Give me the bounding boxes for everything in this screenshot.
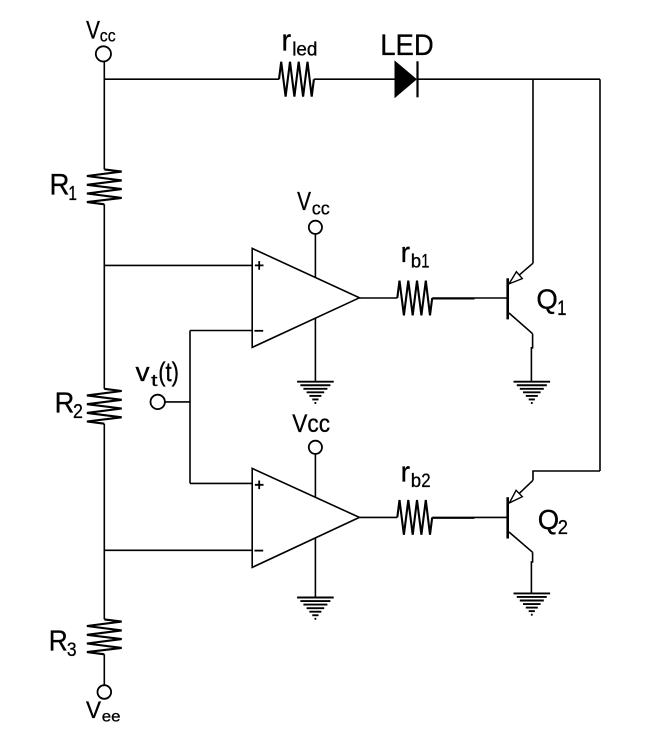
wire: Vcc to R1 xyxy=(103,62,105,170)
svg-text:r: r xyxy=(401,237,411,269)
wire (overlap stub at r_b1 output) xyxy=(432,298,474,300)
diode LED xyxy=(395,60,418,98)
R1 label xyxy=(50,169,78,205)
svg-text:b: b xyxy=(411,251,421,272)
LED label xyxy=(380,29,434,62)
svg-text:led: led xyxy=(292,39,317,60)
U2 Vcc terminal xyxy=(309,441,322,454)
Q2 label xyxy=(538,504,568,539)
U1 Vcc label xyxy=(297,188,330,219)
r_b2 label xyxy=(401,457,431,492)
resistor r_led xyxy=(279,62,314,97)
wire: right rail down to Q2 emitter level xyxy=(599,79,601,471)
svg-text:Vcc: Vcc xyxy=(292,410,330,438)
wire: top rail Vcc to r_led xyxy=(104,78,279,80)
wire: R2 to R3 (left rail) xyxy=(103,424,105,620)
svg-text:ee: ee xyxy=(102,709,121,726)
ground (Q2) xyxy=(514,593,551,614)
svg-text:1: 1 xyxy=(421,250,429,272)
svg-text:r: r xyxy=(282,23,292,57)
svg-text:cc: cc xyxy=(312,197,330,218)
svg-text:cc: cc xyxy=(100,25,116,45)
op-amp U2 xyxy=(252,468,359,567)
Q1 label xyxy=(536,283,566,320)
svg-text:v: v xyxy=(136,357,151,387)
ground (Q1) xyxy=(514,382,551,403)
wire: v_t vertical rail xyxy=(189,331,191,484)
svg-text:Q: Q xyxy=(538,504,559,535)
svg-text:3: 3 xyxy=(67,639,77,661)
wire: r_b2 to Q2 base xyxy=(432,516,506,518)
wire (overlap stub at r_b2 output) xyxy=(432,517,474,519)
transistor Q2 xyxy=(508,480,533,552)
Vee terminal xyxy=(98,685,112,699)
U2 Vcc label xyxy=(292,410,330,438)
svg-text:r: r xyxy=(401,457,411,489)
svg-text:(t): (t) xyxy=(158,357,179,387)
wire: U2 output to r_b2 xyxy=(359,516,397,518)
svg-text:b: b xyxy=(411,471,421,492)
ground (op-amp U2) xyxy=(297,598,334,619)
ground (op-amp U1) xyxy=(297,382,334,403)
op-amp U1 xyxy=(252,248,359,347)
wire: to U1 - input xyxy=(190,330,252,332)
resistor R1 xyxy=(87,169,122,204)
Vcc label xyxy=(86,16,116,45)
wire: Q2 collector to ground xyxy=(531,552,532,593)
wire: U2 Vcc to triangle xyxy=(314,454,316,497)
svg-text:2: 2 xyxy=(73,401,83,423)
wire: R1 to R2 (left rail) xyxy=(103,204,105,388)
R2 label xyxy=(55,387,83,423)
resistor r_b2 xyxy=(397,500,432,535)
svg-text:R: R xyxy=(49,626,68,658)
wire: r_b1 to Q1 base xyxy=(432,297,506,299)
Vee label xyxy=(86,697,121,726)
wire: U1 to ground xyxy=(314,318,316,382)
svg-text:LED: LED xyxy=(380,29,434,62)
transistor Q1 xyxy=(508,263,533,334)
svg-text:V: V xyxy=(86,16,100,44)
svg-text:R: R xyxy=(50,169,70,202)
wire: U1 output to r_b1 xyxy=(359,297,397,299)
R3 label xyxy=(49,626,77,661)
wire: Q2 emitter to right rail xyxy=(533,471,600,480)
wire: r_led to LED xyxy=(314,78,395,80)
wire: v_t(t) to junction rail xyxy=(165,401,190,403)
svg-text:1: 1 xyxy=(68,182,77,205)
svg-text:Q: Q xyxy=(536,283,557,314)
wire: LED to top-right corner xyxy=(418,78,601,80)
wire: R3 to Vee xyxy=(103,654,105,685)
U2 - input mark xyxy=(254,550,263,552)
svg-text:t: t xyxy=(151,371,158,390)
wire: Q1 collector to ground xyxy=(531,334,532,382)
resistor r_b1 xyxy=(397,281,432,316)
svg-text:R: R xyxy=(55,387,75,419)
r_b1 label xyxy=(401,237,430,272)
node B wire: left rail to op-amp U2 - input xyxy=(104,549,252,551)
U1 Vcc terminal xyxy=(309,221,322,234)
v_t(t) label xyxy=(136,357,180,390)
wire: to U2 + input xyxy=(190,482,252,484)
Vcc terminal (top left) xyxy=(96,46,111,61)
resistor R3 xyxy=(87,619,122,654)
wire: U2 to ground xyxy=(314,538,316,598)
wire: U1 Vcc to triangle xyxy=(314,234,316,277)
svg-text:2: 2 xyxy=(558,517,568,539)
U2 + input mark xyxy=(255,481,264,490)
r_led label xyxy=(282,23,318,60)
node A wire: left rail to op-amp U1 + input xyxy=(104,264,252,266)
wire: Q1 emitter up to top rail xyxy=(532,79,534,263)
v_t(t) terminal xyxy=(151,395,165,409)
svg-text:V: V xyxy=(86,697,101,724)
resistor R2 xyxy=(87,389,122,424)
svg-text:2: 2 xyxy=(421,471,430,492)
svg-text:1: 1 xyxy=(557,297,566,320)
U1 + input mark xyxy=(255,261,264,270)
svg-text:V: V xyxy=(297,188,311,216)
U1 - input mark xyxy=(254,330,263,332)
